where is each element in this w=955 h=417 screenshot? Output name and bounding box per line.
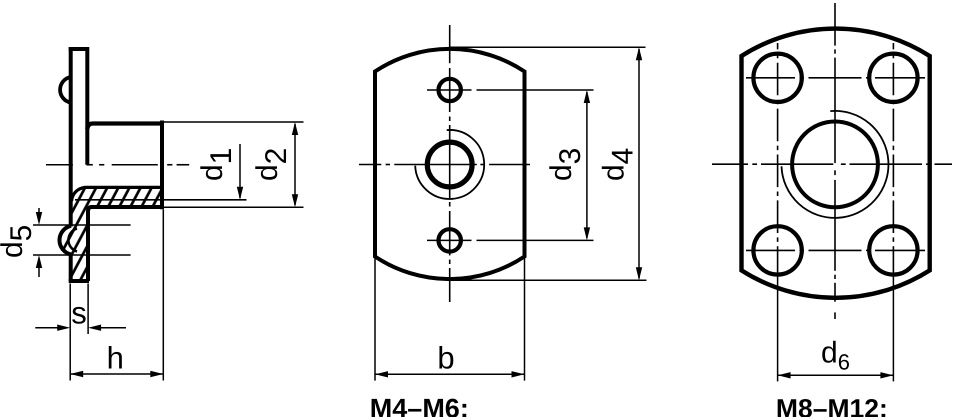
center threaded hole major thin arc: [782, 111, 889, 218]
h dimension line: [70, 373, 163, 375]
s dimension right tail: [100, 327, 126, 329]
arrow b left: [375, 371, 388, 377]
svg-text:h: h: [107, 341, 124, 376]
flange plate left edge (lower segment): [69, 254, 73, 281]
arrow h left: [70, 371, 83, 377]
bottom holes row centerline: [746, 249, 925, 251]
arrow d4 up: [636, 47, 642, 60]
d6 right extension line: [892, 276, 894, 381]
bottom-left hole: [753, 226, 801, 274]
d5 extension line lower: [33, 254, 131, 256]
arrow d5 up: [36, 255, 42, 268]
flange plate left edge (upper segment): [69, 47, 73, 227]
dimensions of left view: [33, 122, 304, 381]
s dimension left tail: [35, 327, 58, 329]
b left extension line: [374, 258, 376, 381]
top rivet hole: [439, 79, 461, 101]
flange plate top edge: [69, 47, 89, 51]
nut boss top edge with fillet: [87, 124, 162, 130]
flange plate bottom edge: [69, 279, 89, 283]
b dimension line: [375, 373, 525, 375]
arrow d3 down: [584, 227, 590, 240]
svg-text:b: b: [437, 341, 454, 376]
d4 top extension line: [450, 46, 646, 48]
d5 dimension line lower tail: [38, 266, 40, 277]
bottom rivet hole: [439, 229, 461, 251]
left holes column centerline: [777, 43, 779, 276]
vertical centerline: [449, 25, 451, 302]
d2 top extension line: [164, 121, 304, 123]
top holes row centerline: [746, 77, 925, 79]
weld projection bump upper (external view): [60, 77, 71, 103]
s right extension line: [87, 284, 89, 335]
centerline (axis): [46, 164, 189, 166]
arrow d2 up: [292, 122, 298, 135]
top-right hole: [869, 54, 917, 102]
flange outline (obround): [742, 29, 930, 298]
d6 left extension line: [777, 276, 779, 381]
d3 bottom extension line / hole centerline: [427, 239, 472, 241]
arrow s left: [88, 325, 101, 331]
bottom-right hole: [869, 226, 917, 274]
arrow d5 down: [36, 212, 42, 225]
d4 dimension line: [638, 49, 640, 279]
d1 dimension line: [239, 144, 241, 198]
d3 top extension line / hole centerline: [427, 89, 472, 91]
arrow h right: [150, 371, 163, 377]
flange outline (obround): [375, 49, 525, 279]
d5 extension line upper: [33, 224, 131, 226]
center threaded hole minor circle: [427, 142, 472, 187]
d2 bottom extension line: [164, 206, 304, 208]
arrow d2 down: [292, 194, 298, 207]
d4 bottom extension line: [450, 279, 647, 281]
flange plate right edge upper half: [85, 47, 89, 165]
d3 dimension line: [586, 92, 588, 238]
s left extension line: [69, 284, 71, 381]
horizontal centerline: [712, 163, 952, 165]
d6 dimension line: [778, 374, 894, 376]
arrow d4 down: [636, 267, 642, 280]
arrow s right: [57, 325, 70, 331]
arrow d6 left: [778, 372, 791, 378]
right holes column centerline: [892, 43, 894, 276]
thread minor diameter line with countersink cone into plate face: [72, 187, 162, 201]
weld projection bump lower inner arc: [68, 229, 77, 252]
horizontal centerline: [359, 164, 530, 166]
b right extension line: [524, 258, 526, 381]
svg-text:M4–M6:: M4–M6:: [370, 394, 469, 417]
svg-text:M8–M12:: M8–M12:: [776, 394, 888, 417]
h right extension line: [162, 210, 164, 381]
arrow d6 right: [880, 372, 893, 378]
vertical centerline: [834, 3, 836, 319]
arrow b right: [512, 371, 525, 377]
arrow d1 down: [237, 187, 243, 200]
d5 dimension line upper tail: [38, 208, 40, 214]
svg-text:s: s: [71, 295, 87, 330]
top-left hole: [753, 54, 801, 102]
nut boss right end edge: [160, 121, 164, 210]
center threaded hole minor circle: [792, 121, 878, 207]
section hatching (flange plate + nut boss wall): [59, 188, 160, 280]
center threaded hole major thin arc: [415, 130, 484, 199]
arrow d3 up: [584, 90, 590, 103]
nut boss bottom edge with fillet into plate right edge: [88, 207, 162, 281]
weld projection bump lower (sectioned) outer arc: [59, 226, 71, 255]
thread major diameter thin line + d1 extension line: [75, 199, 247, 201]
d2 dimension line: [294, 124, 296, 205]
